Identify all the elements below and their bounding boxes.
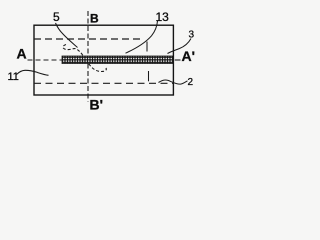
tick below bar: [148, 71, 150, 81]
section line A-A' right dash: [175, 59, 181, 61]
svg-text:A: A: [17, 45, 27, 61]
hidden feature dashed curve (upper): [63, 45, 83, 56]
svg-text:3: 3: [189, 30, 195, 41]
svg-text:2: 2: [188, 77, 194, 88]
hidden feature dashed curve (lower): [89, 64, 107, 72]
leader for 11: [17, 70, 49, 75]
svg-text:B: B: [90, 11, 99, 25]
svg-text:11: 11: [8, 71, 19, 83]
svg-text:13: 13: [156, 10, 170, 24]
section line A-A' left segment (horizontal dashed): [28, 59, 63, 61]
svg-text:A': A': [182, 48, 195, 64]
leader for 2 (wavy): [159, 80, 188, 84]
hidden edge dashed line (upper): [34, 38, 143, 40]
leader for 5: [56, 23, 78, 48]
section line B-B' (vertical dash-dot): [87, 11, 89, 102]
substrate outline 2 (outer rectangle): [34, 25, 173, 95]
leader for 3: [168, 39, 192, 54]
leader for 13: [126, 21, 158, 53]
tick above bar: [146, 42, 148, 52]
hidden edge dashed line (lower): [34, 82, 173, 84]
svg-text:5: 5: [53, 10, 60, 24]
electrode bar (cross-hatched): [62, 56, 173, 64]
svg-text:B': B': [90, 97, 103, 113]
